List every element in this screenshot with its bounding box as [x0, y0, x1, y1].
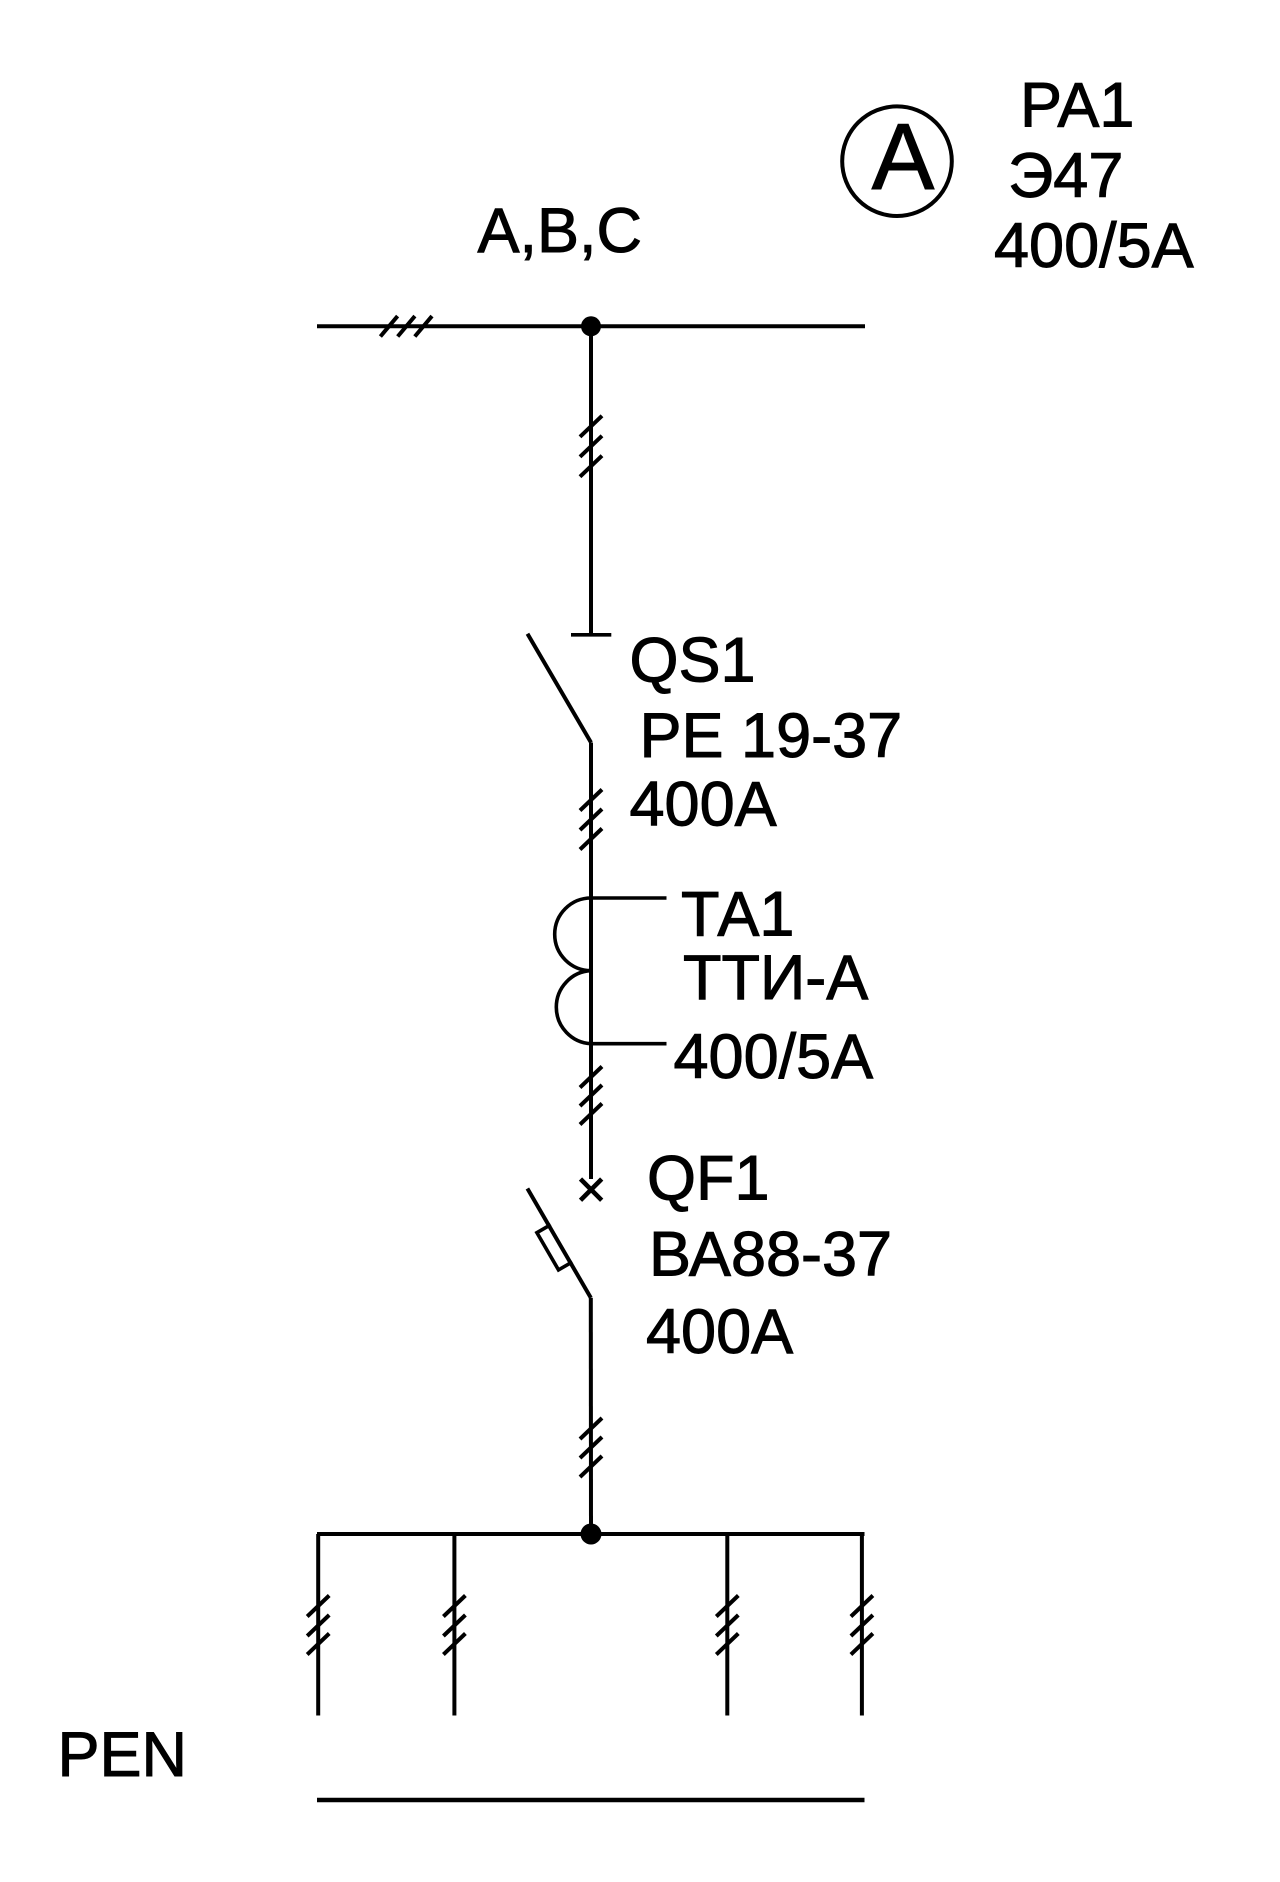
svg-text:ВА88-37: ВА88-37 [649, 1220, 892, 1290]
wire: outgoing feeder 3 [725, 1534, 729, 1716]
three-phase hatch marks on feeder 3 [716, 1596, 738, 1617]
three-phase hatch marks on top busbar [380, 316, 397, 336]
circuit breaker QF1: blade [527, 1189, 590, 1298]
svg-text:A: A [872, 104, 935, 209]
wire: outgoing feeder 2 [452, 1534, 456, 1716]
circuit breaker QF1: fixed contact X mark [581, 1179, 602, 1200]
current transformer TA1: bottom terminal tick [591, 1042, 667, 1046]
ammeter PA1 (circle A) [842, 106, 952, 216]
wire: outgoing feeder 4 [860, 1534, 864, 1716]
wire: PEN busbar [317, 1798, 865, 1802]
wire: top supply busbar [317, 324, 865, 328]
svg-text:А,В,С: А,В,С [478, 196, 643, 266]
current transformer TA1: top terminal tick [591, 896, 667, 900]
three-phase hatch marks on feeder 1 [307, 1596, 329, 1617]
three-phase hatch marks on wire above QS1 [580, 416, 602, 437]
svg-text:PEN: PEN [58, 1720, 188, 1790]
wire: outgoing feeder 1 [316, 1534, 320, 1716]
three-phase hatch marks between QS1 and TA1 [580, 790, 602, 811]
wire: distribution busbar [317, 1532, 865, 1536]
current transformer TA1: upper winding arc [555, 898, 591, 971]
wire: QS1 down through CT to breaker QF1 [589, 743, 593, 1180]
svg-text:Э47: Э47 [1008, 141, 1123, 211]
disconnector QS1: blade (open) [528, 634, 592, 743]
wire: QF1 to distribution busbar [589, 1298, 593, 1534]
svg-text:400/5А: 400/5А [994, 211, 1194, 281]
three-phase hatch marks between TA1 and QF1 [580, 1067, 602, 1088]
three-phase hatch marks below QF1 [580, 1418, 602, 1439]
svg-text:QF1: QF1 [647, 1144, 770, 1214]
svg-text:QS1: QS1 [630, 626, 756, 696]
junction node on top busbar [581, 316, 601, 336]
circuit breaker QF1: release rectangle on blade (right edge = blade) [537, 1225, 572, 1270]
svg-text:ТА1: ТА1 [681, 880, 794, 950]
disconnector QS1: fixed contact T-bar [571, 633, 611, 637]
svg-text:ТТИ-А: ТТИ-А [683, 943, 868, 1013]
svg-text:РЕ 19-37: РЕ 19-37 [640, 701, 903, 771]
svg-text:PA1: PA1 [1020, 71, 1134, 141]
junction node on distribution busbar [581, 1524, 602, 1545]
three-phase hatch marks on feeder 4 [851, 1596, 873, 1617]
svg-text:400А: 400А [630, 770, 777, 840]
wire: busbar to disconnector QS1 [589, 326, 593, 634]
three-phase hatch marks on feeder 2 [443, 1596, 465, 1617]
current transformer TA1: lower winding arc [556, 971, 591, 1044]
svg-text:400А: 400А [646, 1297, 793, 1367]
svg-text:400/5А: 400/5А [674, 1022, 874, 1092]
